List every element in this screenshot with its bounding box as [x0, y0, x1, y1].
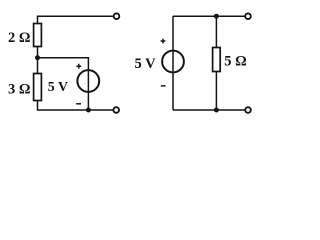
plus sign of V1: [76, 64, 81, 69]
junction dot: node between R1, R2 and source V1: [35, 55, 40, 60]
wire: R1 bottom to junction node: [37, 47, 39, 58]
plus sign of V2: [161, 39, 166, 44]
terminal c (right circuit, top right open circle): [245, 13, 251, 19]
junction dot: bottom node of R3: [214, 108, 219, 113]
wire: right circuit bottom rail: [173, 109, 245, 111]
svg-text:5 V: 5 V: [48, 80, 68, 95]
svg-text:2 Ω: 2 Ω: [8, 30, 31, 46]
wire: junction down to R2 top: [37, 58, 39, 74]
wire: left circuit top rail from R1 top to terminal: [38, 16, 114, 23]
svg-text:5 V: 5 V: [135, 56, 157, 72]
wire: R3 bottom to bottom node: [215, 72, 217, 111]
junction dot: V1 bottom on bottom rail: [86, 108, 91, 113]
wire: right circuit source vertical line (through V2): [172, 16, 174, 110]
wire: left circuit bottom rail from R2 bottom to terminal: [38, 101, 114, 111]
wire: junction to V1 top (horizontal then down): [38, 58, 89, 110]
svg-text:5 Ω: 5 Ω: [224, 54, 247, 70]
wire: top node down to R3: [215, 16, 217, 47]
resistor R2 3 ohm: [34, 74, 42, 101]
svg-text:3 Ω: 3 Ω: [8, 82, 31, 98]
terminal a (left circuit, top right open circle): [114, 13, 120, 19]
junction dot: top node of R3: [214, 14, 219, 19]
terminal b (left circuit, bottom right open circle): [113, 107, 119, 113]
voltage source V2 5 V: [162, 51, 184, 73]
voltage source V1 5 V: [77, 70, 99, 92]
minus sign of V1: [76, 103, 81, 105]
minus sign of V2: [161, 85, 166, 87]
resistor R3 5 ohm: [213, 48, 221, 72]
terminal d (right circuit, bottom right open circle): [245, 107, 251, 113]
resistor R1 2 ohm: [34, 24, 42, 47]
wire: right circuit top rail: [173, 15, 245, 17]
